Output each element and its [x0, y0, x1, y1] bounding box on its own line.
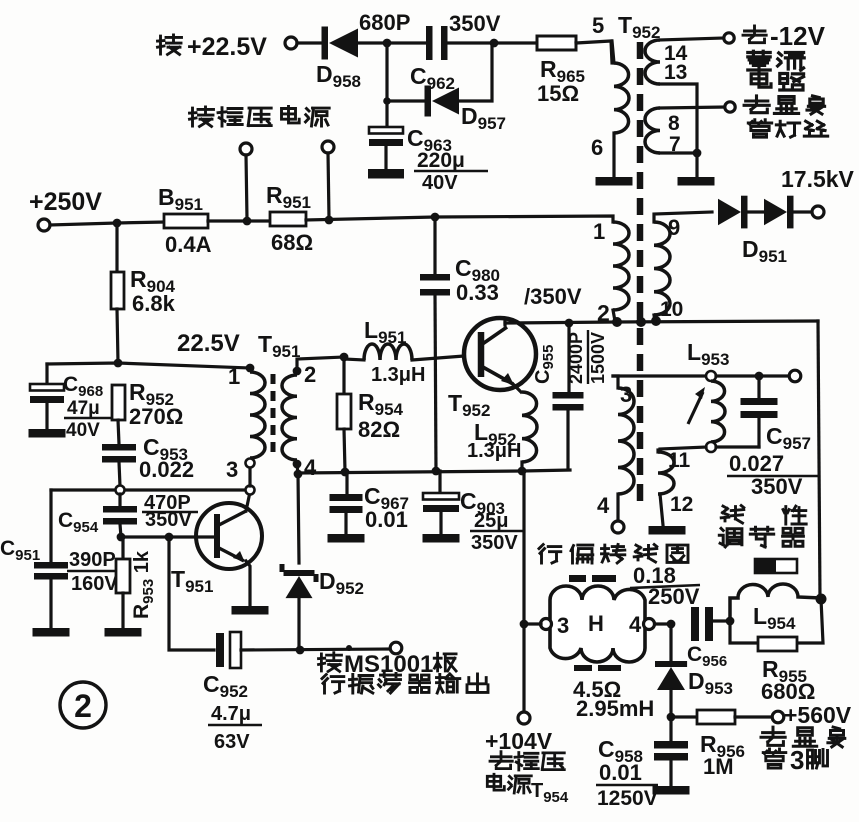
node — [490, 39, 499, 48]
label 电路 — [751, 72, 803, 90]
wire — [438, 471, 441, 493]
node — [706, 442, 716, 452]
L953 adjust arrow — [688, 392, 703, 424]
label 去稳压 — [490, 752, 564, 770]
svg-text:350V: 350V — [471, 532, 518, 554]
svg-text:3: 3 — [790, 745, 804, 775]
svg-text:10: 10 — [660, 298, 683, 321]
wire — [439, 512, 442, 534]
svg-text:+250V: +250V — [29, 188, 102, 216]
node — [636, 317, 646, 327]
zener diode D952 — [280, 564, 319, 598]
label 管3脚 — [763, 745, 827, 775]
label 去显象管灯丝 — [744, 96, 825, 114]
inductor L954 — [730, 584, 821, 621]
node — [432, 467, 441, 476]
node — [520, 620, 529, 629]
wire — [520, 462, 523, 471]
wire — [246, 155, 247, 219]
wire base rail T951 — [121, 535, 213, 538]
node — [518, 467, 527, 476]
T952 winding pins 8-7 — [645, 108, 660, 153]
svg-text:350V: 350V — [449, 11, 501, 36]
node base rail — [117, 533, 126, 542]
node — [755, 372, 764, 381]
node — [706, 371, 716, 381]
wire — [654, 315, 655, 321]
wire — [612, 41, 614, 63]
wire collector — [246, 492, 250, 511]
wire — [45, 403, 48, 429]
node — [325, 216, 334, 225]
svg-text:5: 5 — [592, 13, 604, 38]
node — [816, 594, 827, 605]
svg-text:2400P: 2400P — [566, 332, 586, 384]
svg-text:22.5V: 22.5V — [177, 330, 240, 357]
wire — [118, 420, 119, 444]
svg-text:47μ: 47μ — [67, 398, 100, 419]
label 行振荡器输出 — [322, 674, 488, 694]
node — [296, 646, 305, 655]
svg-text:4: 4 — [304, 455, 317, 480]
wire to pin11 — [660, 447, 706, 449]
T951 secondary winding (pins 2-4) — [282, 375, 297, 460]
node 22.5V rail — [114, 359, 123, 368]
svg-text:2.95mH: 2.95mH — [576, 696, 654, 721]
wire — [435, 295, 436, 471]
transistor T951 — [196, 503, 262, 569]
wire — [669, 760, 672, 786]
fuse B951 — [164, 214, 208, 228]
terminal linearity — [789, 370, 801, 382]
wire pin8 — [660, 107, 725, 108]
transistor T952 — [464, 318, 536, 390]
svg-text:0.01: 0.01 — [599, 760, 642, 785]
capacitor C968 (electrolytic) — [30, 384, 64, 403]
svg-text:11: 11 — [668, 449, 691, 472]
resistor R956 — [697, 710, 735, 724]
figure number 2 — [60, 682, 106, 728]
node — [165, 533, 174, 542]
ground — [232, 606, 269, 615]
wire — [385, 103, 388, 127]
label 接MS1001板 — [319, 651, 457, 678]
node — [383, 97, 391, 105]
capacitor C957 — [741, 398, 778, 418]
wire — [117, 309, 118, 362]
wire base T952 — [412, 356, 464, 360]
resistor R952 — [112, 385, 125, 420]
wire — [656, 450, 659, 452]
terminal to CRT filament — [725, 102, 735, 112]
wire — [757, 376, 760, 398]
capacitor C958 — [654, 741, 688, 761]
wire — [566, 410, 569, 469]
inductor L951 — [364, 344, 412, 360]
node T952 pin 10 — [651, 316, 661, 326]
label 接稳压电源 (to regulated supply) — [190, 107, 330, 127]
wire — [387, 99, 424, 102]
svg-text:160V: 160V — [71, 573, 118, 595]
ground — [328, 534, 365, 543]
ground — [105, 628, 142, 637]
yoke pin 4 — [644, 619, 655, 630]
svg-text:25μ: 25μ — [474, 510, 508, 532]
wire 22.5V rail — [47, 363, 250, 368]
diode D953 — [655, 661, 687, 690]
node T952 pin 2 — [612, 317, 622, 327]
resistor R951 — [270, 212, 306, 226]
wire — [121, 593, 124, 628]
svg-text:350V: 350V — [145, 509, 192, 531]
svg-text:2: 2 — [74, 688, 92, 724]
yoke core dashes top — [569, 575, 586, 582]
label 性 — [783, 506, 806, 524]
node — [294, 470, 303, 479]
svg-text:1: 1 — [593, 219, 605, 244]
label 电源 — [487, 774, 531, 793]
svg-text:6.8k: 6.8k — [132, 291, 176, 316]
capacitor C953 — [102, 444, 136, 463]
label 管灯丝 — [748, 120, 827, 137]
T952 winding pins 1-2 — [613, 222, 629, 310]
T951 primary winding (pins 1-3) — [250, 372, 265, 458]
terminal T952 pin 4 — [612, 521, 624, 533]
svg-text:270Ω: 270Ω — [129, 404, 183, 429]
svg-text:/350V: /350V — [524, 284, 582, 309]
wire +250V bus — [50, 222, 164, 225]
svg-text:63V: 63V — [214, 731, 250, 753]
wire — [298, 474, 299, 563]
wire to T951 pin3 — [248, 468, 251, 486]
wire — [49, 579, 52, 628]
T951 pin 4 — [293, 460, 302, 469]
wire — [612, 133, 615, 177]
diode D958 — [322, 27, 359, 60]
wire — [716, 445, 759, 448]
svg-text:40V: 40V — [422, 172, 458, 194]
wire L954 loop — [730, 599, 823, 643]
svg-text:6: 6 — [591, 135, 603, 160]
capacitor C955 — [553, 392, 584, 411]
svg-text:220μ: 220μ — [417, 149, 465, 172]
label 去显象管3脚 — [761, 727, 845, 747]
svg-text:3: 3 — [557, 613, 569, 638]
terminal +22.5V — [285, 37, 297, 49]
label 线性 — [721, 506, 744, 524]
wire — [616, 494, 619, 521]
wire — [669, 717, 672, 741]
inductor L953 (adjustable) — [711, 381, 725, 442]
resistor R955 — [758, 637, 797, 651]
label 接+22.5V (to +22.5V) — [158, 35, 182, 55]
wire — [297, 41, 321, 44]
wire — [119, 462, 120, 486]
terminal +250V — [38, 219, 50, 231]
wire — [669, 690, 672, 717]
wire pin14 — [660, 38, 724, 40]
wire — [358, 41, 426, 44]
node — [667, 620, 676, 629]
wire — [716, 374, 790, 377]
terminal 17.5kV — [812, 206, 824, 218]
capacitor C963 (electrolytic) — [369, 127, 403, 146]
wire — [45, 364, 48, 384]
wire pin3 — [613, 376, 618, 388]
inductor L952 — [522, 392, 537, 462]
T952 HV winding pins 9-10 — [654, 222, 670, 315]
svg-text:3: 3 — [620, 382, 632, 407]
terminal to -12V rectifier — [724, 33, 734, 43]
svg-text:390P: 390P — [69, 549, 116, 571]
wire — [297, 598, 300, 650]
wire — [524, 622, 541, 625]
svg-text:0.022: 0.022 — [139, 457, 194, 482]
capacitor C951 — [34, 562, 68, 580]
node — [341, 468, 350, 477]
T952 flyback core — [637, 42, 644, 502]
wire — [655, 622, 668, 625]
T952 winding pins 5-6 — [614, 63, 629, 133]
svg-text:2: 2 — [597, 300, 610, 326]
wire — [713, 619, 726, 622]
T952 winding pins 11-12 — [658, 452, 674, 494]
wire — [344, 512, 347, 534]
wire — [345, 472, 348, 494]
wire — [757, 418, 760, 447]
label 整流 — [748, 51, 804, 70]
svg-text:7: 7 — [669, 133, 681, 156]
terminal to regulated supply 1 — [240, 143, 252, 155]
ground — [653, 786, 690, 795]
capacitor C967 — [330, 494, 363, 513]
ground — [423, 534, 460, 543]
ground — [649, 526, 686, 535]
svg-text:15Ω: 15Ω — [537, 81, 579, 106]
svg-text:82Ω: 82Ω — [358, 417, 400, 442]
node C980 tap — [431, 213, 440, 222]
svg-text:+104V: +104V — [485, 728, 553, 754]
wire emitter — [513, 384, 521, 392]
svg-text:68Ω: 68Ω — [271, 230, 313, 255]
wire — [385, 43, 388, 99]
linearity adjuster symbol — [755, 559, 797, 573]
label 去-12V整流电路 — [743, 21, 826, 51]
svg-text:1.3μH: 1.3μH — [371, 364, 425, 386]
node (open junction) — [116, 486, 125, 495]
ground — [33, 628, 70, 637]
ground — [678, 177, 715, 186]
svg-text:2: 2 — [304, 362, 316, 387]
wire — [121, 537, 124, 559]
node (open junction) — [246, 486, 255, 495]
wire collector rail to T952 pin2/10 — [505, 321, 818, 323]
wire L953 rail — [613, 374, 706, 377]
wire pin13 down — [660, 84, 697, 150]
wire — [169, 537, 214, 650]
wire to +104V — [522, 471, 525, 712]
wire — [342, 357, 345, 394]
capacitor C980 — [420, 274, 450, 296]
wire — [433, 217, 436, 274]
wire — [384, 146, 387, 169]
wire emitter — [246, 561, 250, 605]
wire — [735, 715, 772, 718]
T951 pin 1 — [246, 364, 255, 373]
node — [346, 645, 352, 651]
node 680P junction — [383, 39, 392, 48]
wire — [49, 490, 52, 562]
capacitor C962 — [426, 26, 448, 60]
svg-text:0.01: 0.01 — [365, 507, 408, 532]
svg-text:680P: 680P — [359, 10, 410, 35]
label 行偏转线圈 (horiz deflection coil) — [539, 545, 688, 564]
svg-text:12: 12 — [670, 493, 693, 516]
svg-text:1500V: 1500V — [588, 332, 608, 384]
svg-text:0.33: 0.33 — [456, 280, 499, 305]
wire — [120, 524, 121, 537]
node — [113, 219, 122, 228]
svg-text:3: 3 — [226, 457, 238, 482]
T951 core — [271, 374, 276, 458]
node C955 tap — [565, 319, 574, 328]
wire — [669, 624, 672, 661]
wire — [613, 310, 615, 321]
svg-text:680Ω: 680Ω — [761, 679, 815, 704]
wire — [567, 323, 570, 392]
svg-text:1250V: 1250V — [597, 787, 658, 810]
diode D951a — [718, 196, 748, 229]
wire — [328, 153, 329, 218]
resistor R954 — [337, 394, 351, 429]
wire pin7 — [660, 151, 697, 154]
T952 winding pins 14-13 — [645, 40, 660, 84]
svg-text:17.5kV: 17.5kV — [781, 166, 855, 192]
T951 pin 3 — [246, 459, 255, 468]
node — [340, 353, 349, 362]
label 调节器 — [719, 527, 803, 547]
node — [243, 217, 252, 226]
wire right return — [818, 321, 820, 599]
wire to T952 pin5 — [576, 41, 612, 63]
node — [693, 149, 702, 158]
capacitor C956 — [691, 607, 713, 641]
terminal +560V — [772, 711, 784, 723]
deflection yoke H — [550, 586, 645, 662]
wire pin9 — [654, 212, 712, 222]
svg-text:0.4A: 0.4A — [165, 232, 212, 257]
wire — [241, 649, 390, 650]
T951 pin 2 — [293, 367, 302, 376]
svg-text:1.3μH: 1.3μH — [467, 440, 521, 462]
terminal +104V — [518, 712, 530, 724]
wire — [208, 219, 270, 222]
svg-text:13: 13 — [664, 61, 687, 84]
svg-text:1M: 1M — [703, 754, 734, 779]
resistor R953 — [116, 559, 130, 593]
node — [726, 617, 735, 626]
wire base bias rail — [51, 488, 245, 491]
wire — [794, 210, 812, 213]
resistor R904 — [111, 272, 124, 309]
ground — [368, 169, 404, 179]
svg-text:350V: 350V — [751, 474, 803, 499]
capacitor C954 — [103, 506, 137, 525]
svg-text:8: 8 — [668, 112, 680, 135]
svg-text:+560V: +560V — [784, 702, 852, 728]
diode D951b — [764, 196, 794, 229]
svg-text:4: 4 — [629, 612, 642, 637]
svg-text:H: H — [588, 611, 604, 636]
capacitor C903 (electrolytic) — [423, 493, 459, 512]
wire pin2 up — [297, 357, 344, 371]
wire — [748, 210, 764, 213]
T952 winding pins 3-4 — [618, 388, 634, 494]
wire emitter-return rail — [298, 470, 570, 473]
capacitor C952 (electrolytic) — [216, 632, 241, 668]
wire bus to T952 pin1 — [306, 216, 613, 222]
svg-text:4: 4 — [597, 493, 610, 518]
wire — [118, 494, 121, 506]
wire — [671, 715, 697, 718]
terminal to MS1001 — [390, 642, 402, 654]
svg-text:40V: 40V — [66, 420, 100, 441]
yoke pin 3 — [541, 619, 552, 630]
ground — [596, 177, 633, 186]
ground — [29, 429, 66, 438]
svg-text:250V: 250V — [648, 584, 700, 609]
svg-text:1: 1 — [228, 364, 240, 389]
wire — [660, 494, 663, 525]
diode D957 — [425, 86, 460, 117]
wire — [344, 429, 345, 471]
wire — [459, 45, 492, 101]
svg-text:4.7μ: 4.7μ — [211, 703, 251, 725]
wire — [448, 41, 537, 44]
node — [667, 713, 676, 722]
wire — [115, 223, 118, 272]
wire — [344, 359, 364, 360]
resistor R965 — [537, 36, 576, 50]
wire — [695, 153, 698, 177]
svg-text:0.027: 0.027 — [729, 451, 784, 476]
terminal to regulated supply 2 — [322, 141, 334, 153]
svg-text:-12V: -12V — [770, 21, 826, 51]
wire collector — [503, 321, 506, 325]
wire pin4 down — [297, 464, 298, 474]
yoke core dashes bottom — [574, 665, 592, 671]
svg-text:+22.5V: +22.5V — [187, 33, 267, 61]
